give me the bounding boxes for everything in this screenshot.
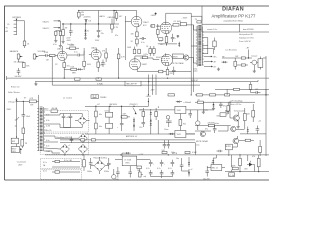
- svg-text:12AU7: 12AU7: [91, 46, 97, 49]
- wire branch down x23: [22, 101, 24, 114]
- box PILOTAGE: [172, 54, 183, 58]
- svg-text:+ 6.3V: + 6.3V: [138, 154, 144, 156]
- triode V1a input: [58, 51, 67, 60]
- vertical wire x84: [83, 48, 85, 61]
- wire plate V4 to OT: [186, 25, 197, 30]
- svg-text:6.3 v / 4A: 6.3 v / 4A: [64, 159, 72, 162]
- ground speaker: [217, 68, 220, 71]
- capacitor C18: [219, 102, 223, 108]
- power transformer T2 core: [40, 107, 43, 150]
- resistor R32 1K: [197, 101, 203, 103]
- transistor Q1: [184, 55, 189, 60]
- wires Q4: [229, 136, 238, 156]
- svg-text:x2: x2: [191, 169, 193, 171]
- dashed box secondary HT: [40, 111, 88, 132]
- capacitor C28: [213, 126, 217, 134]
- ground below R3: [62, 42, 65, 44]
- output transformer T1 core: [198, 26, 201, 66]
- second filament wire y142.5: [60, 142, 195, 144]
- resistor R51 on y95 bus: [168, 94, 175, 96]
- vertical x6.5 frame stub: [6, 78, 8, 80]
- capacitor C4 electrolytic: [97, 24, 101, 38]
- relay area: ground x203: [202, 110, 205, 114]
- svg-text:CAP BUS: CAP BUS: [109, 103, 118, 106]
- diode D17: [212, 160, 214, 162]
- arrow marker near V3: [142, 57, 144, 59]
- resistor R30: [179, 120, 182, 126]
- bus bottom band top y140: [60, 139, 195, 141]
- diode D3: [178, 43, 180, 45]
- svg-text:BUS HT: BUS HT: [192, 80, 199, 82]
- zener stack D2: [85, 24, 87, 30]
- vertical link x148.7: [148, 75, 150, 95]
- zener D7: [133, 120, 135, 122]
- wire V1a cathode resistor: [63, 60, 65, 62]
- resistor R59 on mute row: [162, 151, 167, 153]
- svg-text:sect.: sect.: [196, 144, 200, 147]
- capacitor C2: [59, 31, 61, 35]
- bridge rectifier B5: [91, 157, 109, 174]
- ground input column: [59, 44, 62, 47]
- node dot bus x71: [70, 23, 71, 24]
- svg-text:+300V: +300V: [146, 96, 152, 98]
- wire U3 out: [186, 133, 195, 135]
- zener D1: [79, 17, 88, 20]
- wire Q2 base feed: [229, 102, 231, 118]
- svg-text:Chauffage 6.3V DC: Chauffage 6.3V DC: [56, 137, 72, 139]
- svg-text:6.3v: 6.3v: [46, 145, 49, 147]
- svg-text:+: +: [175, 38, 176, 40]
- wire +12V rail ext: [198, 109, 214, 111]
- components right mid x250: [249, 82, 260, 94]
- zener D18: [150, 120, 152, 122]
- wire Q2: [230, 112, 238, 124]
- caps bank column 3: [171, 160, 175, 167]
- capacitor C27 relay area: [225, 108, 229, 115]
- svg-text:8R +: 8R +: [214, 57, 218, 59]
- resistor R9 100R: [180, 22, 186, 25]
- capacitor C3 22uF 400V: [69, 24, 73, 36]
- diode D5 output: [223, 61, 225, 63]
- box SECT 240V: [11, 147, 20, 153]
- vertical x254.5 bottom right: [254, 165, 256, 172]
- diode D9 feed: [150, 112, 152, 114]
- resistor R27 horizontal: [121, 116, 127, 118]
- svg-text:LT 317A: LT 317A: [124, 158, 131, 161]
- long bus y85: [52, 84, 200, 86]
- svg-text:audio: audio: [193, 71, 197, 73]
- resistor R3: [62, 24, 64, 30]
- wire OT top feed: [191, 16, 202, 21]
- svg-text:V562: V562: [177, 134, 181, 136]
- resistor R38 on y140: [81, 139, 85, 141]
- node dot: [265, 94, 266, 95]
- capacitor C26 bypass V5: [172, 67, 176, 75]
- dashed box filament winding: [41, 158, 82, 168]
- LED D6 left: [16, 100, 18, 102]
- potentiometer P3: [139, 172, 142, 177]
- aux bus y89.4: [215, 88, 269, 90]
- svg-text:4.7K PILOTAGE: 4.7K PILOTAGE: [171, 62, 185, 65]
- diode D4 NFB: [78, 68, 80, 70]
- wire x227 drop: [226, 89, 228, 95]
- diode D13: [213, 104, 215, 106]
- wire to PT primary: [36, 101, 38, 107]
- transistor Q3: [231, 126, 236, 131]
- wire splitter outputs: [135, 56, 146, 59]
- node +HT: [248, 57, 249, 58]
- svg-text:C10: C10: [139, 127, 142, 129]
- speaker row 3: [204, 66, 212, 68]
- ground D13: [212, 108, 215, 110]
- svg-text:100R: 100R: [231, 165, 236, 167]
- left column resistor R18: [118, 48, 120, 54]
- wire mains left vertical: [16, 102, 18, 138]
- wires mains bottom: [17, 136, 23, 154]
- bus bottom right y171.6: [225, 171, 269, 173]
- long vertical bus x125: [124, 16, 126, 60]
- resistor R29: [155, 112, 158, 117]
- resistor R58 sec load: [213, 41, 216, 47]
- diode D10: [178, 101, 180, 103]
- wire input node column: [56, 21, 61, 44]
- svg-text:12AU7: 12AU7: [57, 48, 63, 51]
- wire caps bank bottom: [151, 177, 173, 178]
- double capacitor C19: [163, 140, 170, 149]
- wires winding to B1: [45, 114, 82, 128]
- capacitor C33 mute row: [217, 150, 223, 152]
- svg-text:22u: 22u: [101, 33, 104, 35]
- svg-text:4700u: 4700u: [104, 171, 109, 173]
- ground Q3: [237, 124, 240, 128]
- speaker row 2: [204, 61, 212, 63]
- diode D20 left of U3: [170, 133, 172, 135]
- svg-text:4,7u: 4,7u: [168, 168, 172, 170]
- capacitor C6 bypass: [171, 34, 175, 42]
- svg-text:230VAC: 230VAC: [100, 96, 107, 99]
- resistor R33: [243, 114, 246, 121]
- wire U2 in out: [115, 159, 150, 161]
- dashed box secondary LT: [40, 134, 88, 155]
- svg-text:+ 300V: + 300V: [182, 17, 189, 19]
- svg-text:S AUX 2: S AUX 2: [43, 27, 50, 30]
- svg-text:12AX7: 12AX7: [143, 21, 148, 24]
- svg-text:Les Enceintes: Les Enceintes: [226, 48, 237, 51]
- winding rows bottom: [52, 162, 80, 173]
- node dot top bus x79: [78, 10, 79, 11]
- svg-text:arr. secteur: arr. secteur: [63, 96, 72, 99]
- triode V2 upper driver: [131, 16, 142, 27]
- zener D19: [150, 123, 152, 125]
- resistor R43 vertical right: [257, 158, 260, 166]
- box MUTE: [225, 144, 232, 150]
- wire wiper to C9: [39, 55, 46, 57]
- svg-text:AA 5%: AA 5%: [100, 15, 106, 18]
- potentiometer P1 balance: [17, 54, 22, 60]
- capacitor C5 coupling: [140, 37, 147, 40]
- small box bottom left of relay: [229, 173, 235, 177]
- LED circle PSU: [166, 116, 170, 120]
- relay K1 box: [211, 165, 222, 171]
- wire OT center tap: [191, 45, 197, 47]
- capacitor C15: [142, 120, 146, 127]
- capacitor C13: [95, 106, 97, 111]
- svg-text:e 300mA: e 300mA: [184, 101, 192, 104]
- long bus y81.5: [35, 81, 215, 83]
- resistor R28: [142, 112, 145, 117]
- svg-text:Vz: Vz: [87, 30, 89, 32]
- capacitor C32 relay zone: [256, 126, 260, 134]
- potentiometer P2 volume: [33, 54, 38, 60]
- top supply bus: [79, 10, 117, 12]
- svg-text:+: +: [101, 30, 102, 32]
- svg-text:350v: 350v: [45, 109, 49, 111]
- vertical link x156: [155, 75, 157, 95]
- switch SW box: [11, 138, 18, 144]
- resistor R1 1K: [23, 41, 26, 46]
- zener D8: [133, 125, 135, 127]
- resistor R6 below V2: [136, 37, 138, 39]
- resistor R55 on y89 bus: [234, 88, 240, 90]
- resistor R40 vertical: [83, 160, 86, 167]
- diode D15: [188, 162, 190, 164]
- svg-text:0 VAC: 0 VAC: [192, 151, 198, 154]
- HT bus y106: [85, 105, 148, 107]
- resistor R37 fuse: [21, 140, 24, 146]
- wire C12 down: [22, 120, 24, 129]
- box zener module: [106, 112, 113, 117]
- node dots bottom bus: [239, 171, 240, 172]
- svg-text:+: +: [117, 127, 118, 129]
- resistor R63 V5 supply b: [153, 49, 156, 54]
- svg-text:230v 50: 230v 50: [45, 130, 51, 132]
- transistor Q5: [247, 161, 255, 167]
- resistor R2 10K: [78, 11, 80, 13]
- power transformer T2 primary: [37, 107, 38, 151]
- ground bus PSU: [85, 133, 195, 135]
- mid distribution bus: [62, 23, 119, 25]
- svg-text:compatible EL84 / 6BQ5: compatible EL84 / 6BQ5: [223, 20, 242, 23]
- wire right bus continue: [215, 77, 269, 79]
- svg-text:0.1u: 0.1u: [141, 42, 145, 44]
- resistor R13 470K plate: [66, 47, 70, 49]
- resistor R53 on y95 bus right: [197, 94, 203, 96]
- svg-text:+: +: [153, 163, 154, 165]
- transistor Q2: [233, 115, 239, 121]
- arrow mains: [20, 148, 22, 150]
- svg-text:Veille / Marche: Veille / Marche: [8, 92, 20, 94]
- svg-text:4,7u: 4,7u: [146, 168, 150, 170]
- wire V2 plate up: [114, 11, 137, 17]
- svg-text:6.3 v: 6.3 v: [43, 170, 47, 172]
- wire mains top: [17, 100, 30, 102]
- node dots HT bus: [95, 106, 96, 107]
- svg-text:47K/4W: 47K/4W: [208, 122, 215, 124]
- vertical bus x193.5: [193, 25, 195, 92]
- resistor R60 on mute row: [185, 151, 190, 153]
- long bus y78: [7, 77, 216, 79]
- svg-text:t 30s: t 30s: [216, 115, 220, 118]
- svg-text:Relais +12 Vcc: Relais +12 Vcc: [230, 104, 242, 106]
- svg-text:Puiss. 2x14 W: Puiss. 2x14 W: [239, 41, 251, 43]
- bus right y95: [195, 94, 269, 96]
- ground mid: [34, 82, 37, 86]
- resistor R34 47K: [208, 124, 214, 126]
- border frame of schematic sheet: [5, 6, 270, 180]
- small rect in winding box B: [55, 171, 60, 173]
- bridge rectifier B1: [75, 114, 90, 128]
- wire HT box bottom: [64, 120, 71, 128]
- connector 230VAC box: [91, 95, 99, 99]
- capacitor C30 47u: [69, 114, 73, 121]
- ground V3 cathode: [136, 70, 138, 72]
- wires protection area: [195, 102, 245, 129]
- resistor R24 4.7K mains: [29, 100, 36, 103]
- svg-text:date 02/2006: date 02/2006: [243, 28, 254, 31]
- cathode V5 resistor R47: [167, 67, 169, 70]
- wire bias row: [158, 44, 177, 46]
- svg-text:400 VA: 400 VA: [52, 107, 59, 110]
- wire stub left bus: [6, 76, 8, 78]
- svg-text:+250VDC: +250VDC: [83, 17, 92, 19]
- svg-text:+12: +12: [258, 121, 261, 123]
- svg-text:2W: 2W: [65, 27, 68, 29]
- ground headphone: [253, 65, 256, 73]
- node dot bus y95 left: [148, 94, 149, 95]
- title block box: [202, 6, 269, 32]
- arrow input 2: [54, 27, 59, 29]
- pentode V5 EL84 lower: [161, 53, 173, 65]
- svg-text:6.3 v: 6.3 v: [43, 162, 47, 164]
- capacitor C1: [55, 31, 57, 35]
- resistor R8 grid stopper: [172, 25, 173, 27]
- resistor R49: [252, 111, 255, 118]
- svg-text:1K5: 1K5: [160, 44, 163, 46]
- resistor R54 right end of top bus: [116, 11, 118, 13]
- resistor R45 grid V4: [151, 25, 155, 28]
- output transformer T1 primary: [196, 26, 197, 67]
- svg-text:V562: V562: [177, 110, 181, 112]
- resistor R20: [138, 49, 141, 53]
- resistor R23: [241, 64, 245, 66]
- cathode resistor R10 470R: [166, 34, 168, 37]
- box relais small: [220, 113, 226, 117]
- svg-text:0.1u: 0.1u: [53, 44, 57, 46]
- svg-text:6.3VAC: 6.3VAC: [97, 82, 104, 85]
- caps bank column 1 row 2: [149, 170, 153, 177]
- wire V5 grid: [146, 58, 159, 60]
- svg-text:Amplificateur PP K177: Amplificateur PP K177: [212, 14, 257, 19]
- resistor R39 on y140: [91, 139, 95, 141]
- svg-text:470: 470: [170, 73, 173, 75]
- vertical x247.8 bottom right: [247, 155, 249, 161]
- vertical x195.5 drop: [195, 143, 197, 155]
- pentode V4 EL84 upper: [160, 22, 171, 34]
- svg-text:MR25: MR25: [173, 56, 178, 58]
- wire relay feed: [182, 157, 189, 171]
- resistor R14: [83, 61, 86, 66]
- wire +300V rail across: [140, 109, 175, 111]
- svg-text:40u: 40u: [99, 126, 102, 128]
- capacitor C14: [120, 117, 124, 131]
- svg-text:0.22u: 0.22u: [144, 54, 149, 56]
- resistor R56 near V4 cathode: [159, 38, 163, 41]
- svg-text:+: +: [105, 64, 106, 66]
- resistor R44 100R: [232, 167, 238, 170]
- svg-text:330R: 330R: [7, 109, 12, 111]
- resistor R31 on bus: [210, 94, 216, 96]
- power transformer T2 secondary: [44, 107, 45, 151]
- svg-text:OC 100R: OC 100R: [174, 21, 182, 23]
- capacitor C24 relay: [180, 160, 184, 171]
- capacitor C9 coupling: [46, 54, 50, 57]
- box module 2: [106, 123, 113, 128]
- components row NFB: [64, 68, 71, 70]
- vertical bus x191: [190, 21, 192, 94]
- resistor R17 on bus: [96, 78, 102, 80]
- capacitor C21: [107, 158, 111, 169]
- wire +HT stub: [248, 50, 250, 59]
- svg-text:AMP BUS +B: AMP BUS +B: [126, 135, 138, 138]
- svg-text:6.3v: 6.3v: [46, 120, 49, 122]
- svg-text:40u: 40u: [99, 114, 102, 116]
- node dot top bus x114: [113, 10, 114, 11]
- triode V3 phase splitter: [129, 59, 140, 70]
- capacitor C22: [116, 167, 120, 178]
- svg-text:EL84: EL84: [156, 57, 160, 59]
- transistor Q6: [200, 131, 205, 136]
- svg-text:Co primaire: Co primaire: [17, 162, 26, 164]
- junction box above OT: [197, 21, 201, 23]
- svg-text:BALANCE: BALANCE: [10, 50, 19, 53]
- resistor R21 10R: [241, 57, 245, 59]
- wire V1a plate up: [61, 46, 63, 51]
- resistor R42 vertical: [239, 158, 242, 165]
- resistor R4 4.7K column: [111, 19, 113, 25]
- svg-text:100n: 100n: [171, 152, 175, 154]
- svg-text:Impedance 8 Ohm: Impedance 8 Ohm: [239, 38, 254, 40]
- right vertical x266 lower: [265, 89, 267, 156]
- svg-text:Temporisation: Temporisation: [234, 109, 245, 112]
- svg-text:DIAFAN: DIAFAN: [222, 7, 244, 13]
- svg-text:Entree CD: Entree CD: [11, 86, 20, 89]
- svg-text:R11: R11: [183, 123, 186, 125]
- resistor R35 right edge: [259, 146, 262, 152]
- svg-text:1uF 63V: 1uF 63V: [15, 76, 23, 78]
- svg-text:version 1.0rc: version 1.0rc: [207, 29, 217, 31]
- resistors above splitter: [134, 47, 136, 50]
- node dots y155: [64, 154, 65, 155]
- wire +300V drop: [147, 98, 149, 106]
- svg-text:S AUX 1: S AUX 1: [43, 20, 50, 23]
- speaker row 1: [204, 56, 212, 58]
- svg-text:+: +: [164, 163, 165, 165]
- svg-text:CAP AUX: CAP AUX: [108, 16, 117, 19]
- svg-text:4,7u: 4,7u: [157, 168, 161, 170]
- svg-text:Haut-parleurs 4R: Haut-parleurs 4R: [239, 33, 253, 36]
- wire U1 out: [186, 109, 198, 111]
- node dots audio buses: [64, 78, 65, 79]
- bus right y102: [195, 101, 255, 103]
- capacitor C16: [188, 110, 192, 118]
- box BALLAST: [125, 81, 141, 86]
- tick marks x16 line: [15, 120, 17, 126]
- capacitor C31 chauffage: [70, 137, 74, 144]
- node dot bus y95 x191: [191, 94, 192, 95]
- long bus y155: [45, 154, 269, 156]
- svg-text:1 Rouge: 1 Rouge: [8, 101, 15, 103]
- svg-text:1W: 1W: [81, 12, 84, 14]
